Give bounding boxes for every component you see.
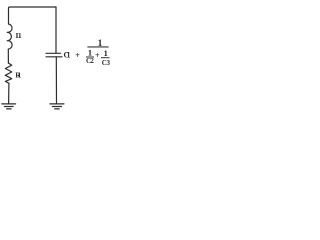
- svg-text:+: +: [95, 51, 100, 60]
- svg-text:C3: C3: [102, 59, 111, 67]
- svg-text:C1: C1: [64, 51, 71, 60]
- fraction main bar: [87, 46, 108, 47]
- denominator 1/C2 bar: [86, 57, 94, 58]
- svg-text:1: 1: [98, 39, 103, 49]
- svg-text:L1: L1: [16, 31, 22, 40]
- wire right vertical (top node to C1): [55, 7, 57, 53]
- denominator 1/C3 bar: [101, 57, 110, 58]
- wire left vertical (top node to L1): [8, 8, 10, 24]
- capacitor C1: [46, 53, 62, 57]
- ground middle: [50, 104, 64, 109]
- wire top horizontal: [9, 7, 57, 8]
- svg-text:1: 1: [88, 47, 92, 57]
- inductor L1: [7, 24, 12, 49]
- resistor R1: [5, 63, 12, 83]
- svg-text:R1: R1: [15, 70, 21, 79]
- wire R1 to ground: [8, 83, 10, 103]
- svg-text:C2: C2: [86, 57, 94, 65]
- ground left: [2, 104, 16, 109]
- svg-text:+: +: [75, 50, 80, 60]
- svg-text:1: 1: [103, 48, 107, 58]
- wire C1 to ground: [55, 57, 57, 104]
- wire L1 to R1: [7, 50, 9, 63]
